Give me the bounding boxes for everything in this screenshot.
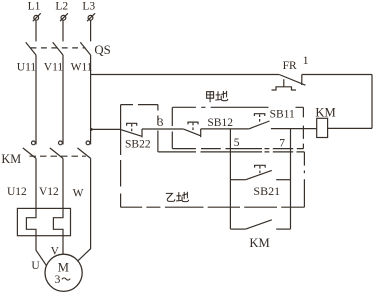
glyph 乙 — [166, 193, 175, 201]
wire L2 to QS — [62, 20, 64, 41]
contactor KM main pole3 circle — [86, 141, 90, 145]
svg-text:KM: KM — [249, 236, 269, 250]
KM main pole1 blade — [23, 148, 36, 159]
wire U11 — [35, 55, 37, 144]
svg-text:5: 5 — [234, 137, 240, 149]
terminal L3 — [87, 13, 95, 21]
jiadi box left edge — [171, 107, 173, 148]
label jiadi (甲地) — [207, 91, 228, 102]
yidi right edge dash-dot — [303, 152, 305, 207]
wire bottom rail — [328, 127, 372, 129]
FR right terminal tick — [301, 75, 303, 86]
terminal L2 — [60, 13, 68, 21]
yidi SB22 box right edge — [157, 105, 159, 152]
svg-text:KM: KM — [1, 152, 21, 166]
motor M circle — [45, 254, 82, 291]
pushbutton SB22 blade — [121, 130, 142, 137]
SB22 actuator — [127, 123, 137, 125]
coil KM — [317, 118, 328, 137]
svg-text:SB11: SB11 — [270, 109, 295, 121]
wire W down to motor — [78, 158, 91, 261]
svg-text:V12: V12 — [39, 186, 59, 198]
switch QS pole 2 blade — [53, 42, 63, 55]
KM main pole2 blade — [50, 148, 63, 159]
svg-text:V11: V11 — [44, 61, 64, 73]
location box yidi: SB22 box top — [121, 104, 158, 106]
wire L1 to QS — [35, 20, 37, 41]
FR actuator symbol — [272, 79, 297, 90]
wire branch rail node7 down — [290, 129, 292, 230]
svg-text:W11: W11 — [71, 61, 93, 73]
SB21 blade — [246, 170, 272, 179]
SB21 actuator — [255, 165, 266, 167]
svg-text:L2: L2 — [55, 1, 68, 13]
pushbutton SB12 blade — [183, 129, 201, 136]
KM main linkage dashed — [30, 155, 86, 157]
svg-text:3: 3 — [55, 274, 61, 286]
switch QS pole 3 blade — [80, 42, 90, 55]
svg-text:U12: U12 — [7, 186, 27, 198]
svg-text:M: M — [58, 261, 69, 275]
jiadi box right edge — [302, 107, 304, 148]
svg-text:L1: L1 — [28, 1, 41, 13]
wire SB22 to SB12 — [142, 128, 183, 130]
pushbutton SB11 blade — [249, 121, 270, 129]
wire V12 with heater — [53, 158, 63, 254]
svg-text:QS: QS — [94, 43, 110, 57]
wire branch rail node5 down — [229, 129, 231, 229]
SB21 right wire — [276, 179, 290, 181]
glyph 甲 — [207, 92, 214, 103]
SB22 right tick — [141, 129, 143, 138]
contactor KM main pole2 circle — [59, 141, 63, 145]
wire U12 with heater — [26, 158, 46, 265]
wire SB12 to SB11 — [201, 128, 249, 130]
wire V11 — [62, 55, 64, 144]
contactor KM main pole1 circle — [32, 141, 36, 145]
svg-text:W: W — [73, 188, 84, 200]
svg-text:SB21: SB21 — [253, 184, 280, 198]
svg-text:U11: U11 — [17, 61, 37, 73]
wire node1 rail — [302, 74, 372, 76]
svg-text:U: U — [31, 260, 40, 272]
QS linkage dashed — [31, 47, 86, 49]
SB12 actuator — [188, 122, 198, 124]
svg-text:SB22: SB22 — [125, 139, 151, 151]
thermal relay contact FR blade — [279, 75, 305, 86]
switch QS pole 1 blade — [26, 42, 36, 55]
terminal L1 — [33, 13, 41, 21]
KM main pole3 blade — [77, 148, 90, 159]
contact KM aux left wire — [230, 228, 245, 230]
label yidi (乙地) — [166, 192, 189, 202]
tilde of 3~ — [62, 278, 70, 280]
wire top control rail — [91, 74, 280, 76]
svg-text:SB12: SB12 — [207, 117, 233, 129]
svg-text:KM: KM — [315, 106, 335, 120]
jiadi box bottom edge — [172, 148, 303, 150]
svg-text:V: V — [51, 246, 60, 258]
wire W11 — [90, 55, 92, 144]
wire control line left — [91, 128, 121, 130]
junction dot at W11 tap — [90, 128, 93, 131]
KM aux blade — [246, 220, 272, 229]
glyph 地 (of 甲地) — [215, 91, 227, 101]
location box jiadi dashed top — [172, 106, 303, 108]
SB11 actuator — [254, 114, 264, 116]
wire right rail — [371, 75, 373, 129]
svg-text:1: 1 — [303, 55, 309, 67]
yidi top edge right run — [158, 151, 305, 153]
wire L3 to QS — [90, 20, 92, 41]
heater FR box — [17, 208, 70, 235]
wire coil to node 7 — [271, 128, 317, 130]
pushbutton SB21 left wire — [230, 179, 245, 181]
svg-text:7: 7 — [279, 138, 285, 150]
yidi bottom edge — [121, 206, 305, 208]
glyph 地 (of 乙地) — [176, 192, 188, 202]
svg-text:FR: FR — [283, 60, 297, 72]
svg-text:L3: L3 — [82, 1, 95, 13]
SB12 right tick — [200, 129, 202, 137]
yidi left edge — [120, 105, 122, 208]
KM aux right wire — [276, 228, 290, 230]
